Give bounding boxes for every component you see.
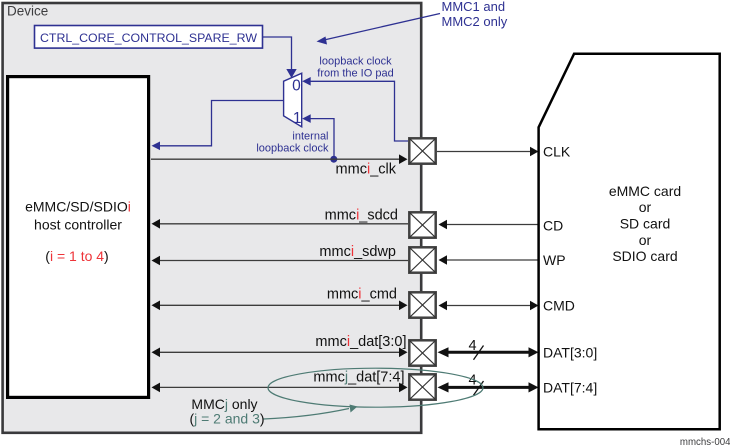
svg-text:loopback clock: loopback clock: [319, 56, 392, 68]
wire mmci_dat[3:0] (bidirectional host-pad): [160, 351, 406, 353]
svg-text:(i = 1 to 4): (i = 1 to 4): [45, 248, 108, 264]
svg-text:SDIO card: SDIO card: [612, 248, 677, 264]
arrowhead into CD pad: [439, 220, 448, 230]
arrowhead into mux input 0: [302, 77, 311, 86]
arrowhead into card CLK: [530, 147, 539, 157]
wire mux output to host controller: [154, 101, 284, 146]
IO pad DAT[3:0]: [409, 340, 435, 365]
svg-text:4: 4: [469, 338, 477, 354]
wire internal loopback clock: [305, 119, 334, 159]
svg-text:mmci_dat[3:0]: mmci_dat[3:0]: [315, 334, 406, 350]
arrowhead into mux input 1: [302, 114, 311, 123]
svg-text:mmci_cmd: mmci_cmd: [327, 287, 397, 303]
svg-text:CD: CD: [543, 218, 563, 234]
ellipse MMCj grouping: [268, 368, 483, 407]
arrowhead into DAT74 pad right: [438, 382, 449, 392]
svg-text:CTRL_CORE_CONTROL_SPARE_RW: CTRL_CORE_CONTROL_SPARE_RW: [40, 31, 257, 45]
arrowhead into card DAT30: [529, 347, 539, 357]
IO pad CD: [409, 212, 435, 237]
svg-text:or: or: [639, 199, 652, 215]
wire CD card to pad: [447, 224, 539, 226]
wire CLK pad to card: [437, 151, 530, 153]
arrowhead into host (sdwp): [152, 256, 161, 266]
arrowhead into CMD pad: [399, 301, 408, 311]
arrowhead select down: [286, 69, 296, 78]
svg-text:mmci_sdwp: mmci_sdwp: [319, 244, 396, 260]
svg-text:mmci_clk: mmci_clk: [336, 162, 397, 178]
svg-text:(j = 2 and 3): (j = 2 and 3): [189, 411, 264, 427]
Device boundary: [3, 3, 422, 433]
wire loopback clock from IO pad: [305, 81, 408, 141]
svg-text:mmchs-004: mmchs-004: [680, 437, 730, 445]
svg-text:eMMC card: eMMC card: [609, 183, 681, 199]
mux U1: [284, 73, 302, 127]
arrowhead into DAT30 pad right: [438, 347, 449, 357]
wire mmci_cmd (bidirectional host-pad): [160, 304, 406, 306]
callout leader to ellipse: [264, 409, 350, 420]
svg-text:MMC2 only: MMC2 only: [442, 14, 508, 29]
arrowhead into host (cmd): [152, 301, 161, 311]
IO pad DAT[7:4]: [409, 374, 435, 399]
arrowhead into card CMD: [530, 301, 539, 311]
arrowhead into DAT74 pad: [399, 383, 408, 393]
svg-text:1: 1: [293, 110, 302, 127]
svg-text:eMMC/SD/SDIOi: eMMC/SD/SDIOi: [25, 199, 131, 215]
wire DAT[3:0] pad to card thick bidirectional: [446, 351, 529, 354]
junction node on mmci_clk: [330, 156, 337, 163]
IO pad CMD: [409, 292, 435, 317]
wire select (register to mux): [263, 37, 292, 69]
wire mmci_clk (host to pad): [151, 158, 406, 160]
svg-text:SD card: SD card: [620, 216, 671, 232]
svg-text:DAT[7:4]: DAT[7:4]: [543, 380, 597, 396]
bus slash DAT[7:4]: [474, 381, 484, 395]
wire mmci_sdcd (pad to host): [160, 223, 408, 225]
svg-text:0: 0: [292, 78, 301, 95]
annotation arrow MMC1/MMC2: [324, 14, 440, 41]
arrowhead into host (dat30): [152, 348, 161, 358]
svg-text:MMC1 and: MMC1 and: [442, 0, 506, 14]
arrowhead into CMD pad right: [439, 301, 448, 311]
wire WP card to pad: [447, 259, 539, 261]
svg-text:internal: internal: [292, 131, 328, 143]
host controller box: [8, 77, 149, 398]
arrowhead into host (sdcd): [152, 219, 161, 229]
svg-text:from the IO pad: from the IO pad: [317, 68, 393, 80]
arrowhead into CLK pad: [399, 154, 408, 164]
arrowhead into host controller: [152, 142, 161, 151]
svg-text:loopback clock: loopback clock: [256, 143, 329, 155]
wire CMD pad to card (bidirectional): [447, 305, 530, 307]
arrowhead into host (dat74): [152, 383, 161, 393]
arrowhead into card DAT74: [529, 382, 539, 392]
arrowhead into WP pad: [439, 255, 448, 265]
svg-text:CMD: CMD: [543, 298, 575, 314]
arrowhead into DAT30 pad: [399, 348, 408, 358]
IO pad WP: [409, 247, 435, 272]
register CTRL_CORE_CONTROL_SPARE_RW: [35, 26, 263, 49]
card (eMMC/SD/SDIO): [539, 54, 720, 430]
svg-text:mmci_sdcd: mmci_sdcd: [325, 207, 398, 223]
IO pad CLK: [409, 138, 435, 163]
svg-text:mmcj_dat[7:4]: mmcj_dat[7:4]: [313, 369, 404, 385]
wire DAT[7:4] pad to card thick bidirectional: [446, 386, 529, 389]
svg-text:CLK: CLK: [543, 144, 571, 160]
bus slash DAT[3:0]: [474, 346, 484, 360]
wire mmci_sdwp (pad to host): [160, 260, 408, 262]
svg-text:WP: WP: [543, 252, 566, 268]
svg-text:or: or: [639, 232, 652, 248]
svg-text:Device: Device: [7, 4, 48, 19]
wire mmcj_dat[7:4] (bidirectional host-pad): [160, 386, 406, 388]
svg-text:DAT[3:0]: DAT[3:0]: [543, 345, 597, 361]
svg-text:host controller: host controller: [34, 217, 122, 233]
